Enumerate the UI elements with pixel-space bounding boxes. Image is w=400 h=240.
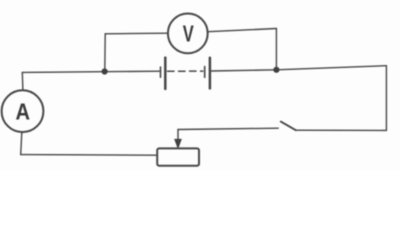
svg-text:A: A <box>16 98 31 124</box>
wire: bottom horizontal <box>21 154 158 157</box>
ammeter M1 (A) <box>2 90 44 132</box>
battery BT1 cell 1 short plate <box>160 67 162 77</box>
node A (junction dot left) <box>102 68 108 74</box>
wire: bottom-left vertical up to ammeter <box>21 132 22 154</box>
battery BT1 cell 1 long plate <box>164 58 167 89</box>
rheostat R1 (resistance box) <box>157 148 199 165</box>
battery BT1 dashed link <box>168 70 203 72</box>
rheostat wiper stem <box>177 130 179 141</box>
wire: left riser from junction A up to voltmeter branch <box>104 34 106 72</box>
rheostat wiper arrowhead <box>175 139 182 148</box>
wire: main row right (battery to top-right corner) <box>211 66 386 71</box>
battery BT1 cell 2 short plate <box>204 67 206 78</box>
node B (junction dot right) <box>273 67 279 73</box>
wire: top horizontal right (voltmeter to right riser) <box>208 29 277 32</box>
wire: switch left contact to rheostat wiper <box>178 128 278 129</box>
svg-text:V: V <box>183 21 194 47</box>
wire: right side vertical <box>385 66 387 131</box>
wire: top horizontal left (to voltmeter) <box>105 32 168 35</box>
voltmeter U1 (V) <box>168 14 208 54</box>
wire: ammeter top to left corner <box>21 72 24 90</box>
switch S1 (open blade) <box>281 122 296 131</box>
wire: right riser down to junction B <box>275 29 277 70</box>
wire: main row left (corner to battery) <box>22 71 159 72</box>
wire: bottom-right horizontal (to switch hinge) <box>296 129 387 131</box>
battery BT1 cell 2 long plate <box>209 58 212 89</box>
